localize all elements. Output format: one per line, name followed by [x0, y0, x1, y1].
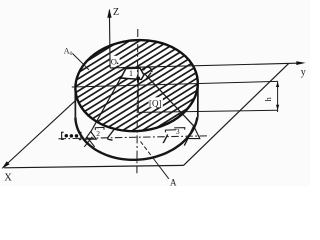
hatch: [68, 0, 206, 225]
origin O label knockout: [111, 56, 120, 66]
svg-text:2: 2: [96, 129, 100, 138]
cylinder base front arc: [75, 117, 197, 160]
support 1 pad knockout: [121, 68, 144, 79]
h dim top arrowhead: [276, 82, 279, 88]
X axis arrowhead: [2, 161, 10, 169]
support 3 bracket left: [165, 130, 176, 133]
plane bottom edge: [4, 165, 183, 167]
svg-text:y: y: [301, 67, 306, 78]
support 3 hatch tick: [184, 128, 193, 146]
support 3 bracket right: [174, 128, 185, 130]
hook 3: [163, 134, 168, 142]
roller dot 3: [75, 134, 79, 138]
A leader hidden segment: [141, 142, 154, 159]
h dimension line: [277, 82, 279, 113]
force [Q] line of action: [137, 68, 139, 112]
force [Q] arrowhead: [136, 77, 140, 84]
A leader visible segment: [153, 158, 169, 179]
hook 2: [108, 129, 115, 141]
roller dot 2: [70, 134, 74, 138]
support 2 hatch tick a: [84, 137, 92, 147]
roller bracket right ]: [79, 132, 81, 139]
plane right edge: [184, 63, 289, 165]
svg-text:O: O: [111, 56, 117, 66]
support 2 bracket: [95, 127, 104, 130]
support 2 triangle: [85, 132, 96, 140]
svg-text:h: h: [263, 97, 273, 102]
support 1 trapezoid outline: [119, 68, 144, 79]
top tangent line to h dim: [195, 81, 278, 83]
h dim bottom arrowhead: [276, 105, 279, 111]
svg-text:[Q]: [Q]: [149, 98, 162, 108]
y axis arrowhead: [296, 61, 305, 65]
svg-text:3: 3: [176, 127, 180, 136]
top face ellipse outline: [72, 35, 202, 136]
cylinder left silhouette: [74, 89, 76, 117]
svg-text:X: X: [4, 172, 12, 183]
horizontal center line 2-3 (dash-dot): [59, 136, 210, 139]
top face level reference line: [72, 84, 195, 87]
svg-text:1: 1: [129, 69, 133, 78]
Z axis arrowhead: [107, 9, 111, 18]
vertical center line (dash-dot): [136, 29, 139, 173]
origin point dot: [117, 63, 119, 65]
svg-text:A: A: [170, 177, 177, 186]
svg-text:Z: Z: [113, 7, 119, 18]
roller dot 1: [65, 134, 69, 138]
A0 leader line: [73, 54, 90, 70]
support 2 hatch tick b: [87, 137, 95, 147]
top face ellipse: [72, 35, 202, 136]
base level line to h dim: [138, 110, 277, 112]
hook 1: [143, 67, 152, 80]
support triangle side 1-2: [91, 78, 121, 132]
Z axis line: [108, 10, 111, 68]
X axis line: [3, 98, 79, 168]
support triangle side 1-3: [144, 73, 193, 126]
y axis line: [110, 63, 296, 68]
cylinder right silhouette: [197, 83, 199, 117]
label [Q] knockout: [149, 97, 163, 107]
roller bracket left [: [62, 132, 64, 139]
support 3 triangle: [188, 126, 200, 139]
